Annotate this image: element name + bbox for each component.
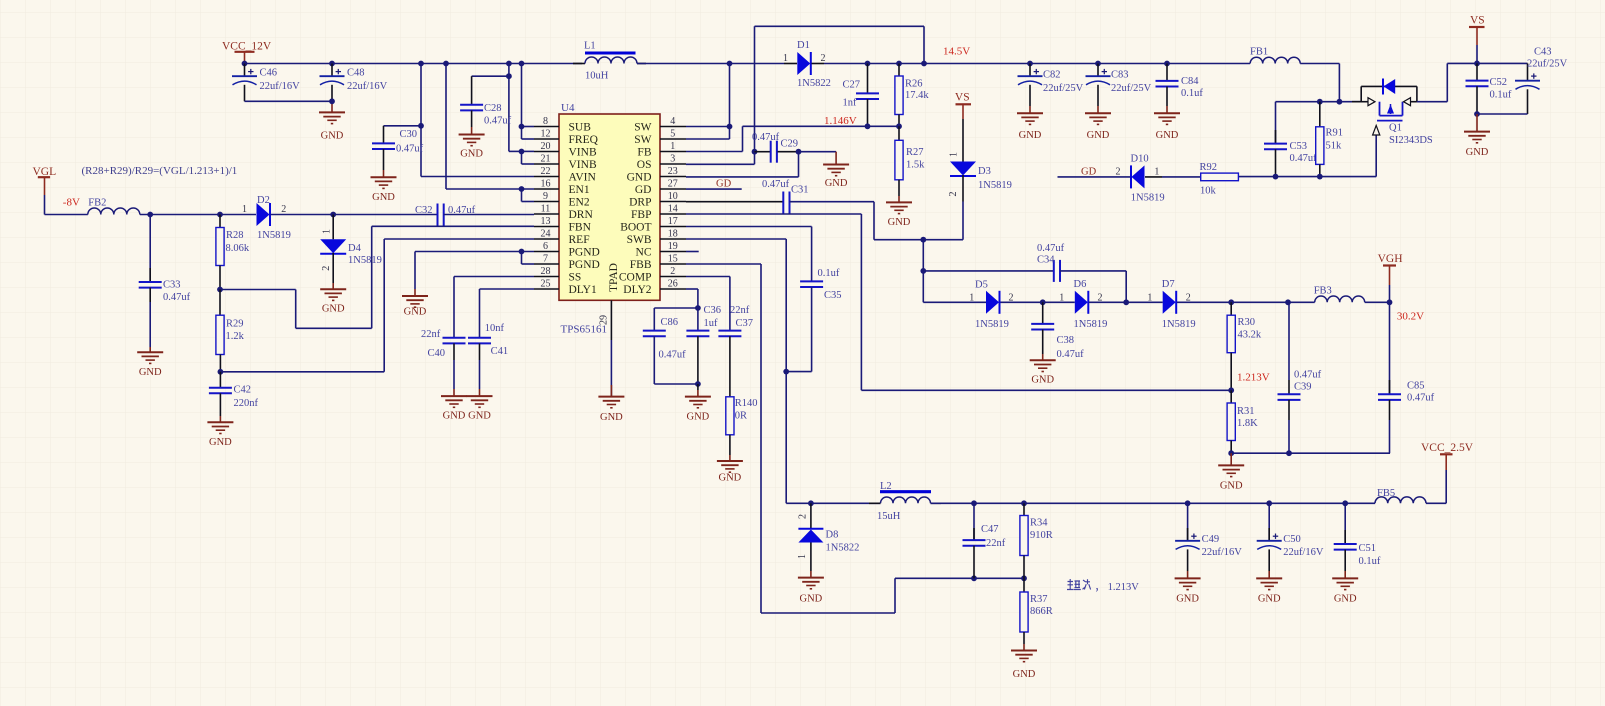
wire C43 top lead [1527, 63, 1529, 80]
wire R34 top lead [1023, 503, 1025, 515]
label C82 value [1043, 70, 1084, 95]
svg-text:GND: GND [1220, 481, 1243, 492]
label C85 value [1407, 381, 1435, 404]
svg-text:GND: GND [1087, 130, 1110, 141]
svg-text:6: 6 [543, 241, 548, 252]
resistor R26 [895, 76, 903, 115]
svg-text:C43: C43 [1534, 47, 1552, 58]
svg-text:FREQ: FREQ [569, 134, 599, 146]
svg-text:GND: GND [321, 131, 344, 142]
wire C36 gnd stem [697, 384, 699, 397]
svg-text:C84: C84 [1181, 76, 1199, 87]
svg-text:D1: D1 [797, 40, 810, 51]
capacitor C42 [209, 388, 232, 394]
svg-text:D2: D2 [257, 195, 270, 206]
wire DLY1 to C41 [480, 289, 535, 337]
svg-text:(R28+R29)/R29=(VGL/1.213+1)/1: (R28+R29)/R29=(VGL/1.213+1)/1 [82, 165, 238, 177]
svg-text:1.2k: 1.2k [226, 331, 245, 342]
svg-text:1N5819: 1N5819 [348, 255, 382, 266]
wire C36 bottom lead [697, 336, 699, 384]
wire C84 top lead [1166, 64, 1168, 81]
node 14.5V junctions [865, 61, 1170, 67]
label Q1 [1389, 123, 1433, 147]
wire SWB to L2 [786, 502, 880, 504]
wire C42 top lead [219, 372, 221, 388]
wire C28 top lead [471, 76, 473, 104]
wire 2.5V rail [931, 502, 1376, 504]
resistor R140 [726, 397, 734, 435]
svg-text:15uH: 15uH [877, 511, 901, 522]
svg-text:0.47uf: 0.47uf [163, 292, 191, 303]
junction REF/C42 node [218, 369, 224, 375]
junction VS node [1474, 61, 1480, 67]
svg-text:1: 1 [242, 204, 247, 215]
wire R27 bottom lead [898, 180, 900, 203]
ground C36/C86 [685, 397, 711, 423]
svg-text:25: 25 [541, 279, 551, 290]
svg-text:DLY2: DLY2 [623, 284, 651, 296]
junction VGH node [1387, 299, 1393, 305]
svg-text:24: 24 [541, 229, 551, 240]
svg-text:1N5819: 1N5819 [975, 319, 1009, 330]
svg-text:0.47uf: 0.47uf [1057, 349, 1085, 360]
wire EN1-EN2 tie [522, 189, 535, 202]
svg-text:L1: L1 [584, 41, 596, 52]
junction C39 bottom [1286, 450, 1292, 456]
wire L1 to D1 (SW node) [637, 63, 784, 65]
wire FBP pin14 [686, 214, 861, 390]
capacitor C85 [1378, 394, 1401, 400]
capacitor C30 [372, 143, 395, 149]
op-amp U4 TPS65161 body [559, 114, 660, 300]
svg-text:C50: C50 [1283, 534, 1301, 545]
label D4 [321, 229, 382, 271]
power flag VS (output) [1469, 15, 1485, 64]
junction VINB pin20 [519, 149, 525, 155]
svg-text:GD: GD [635, 184, 652, 196]
ground C30 [371, 177, 397, 203]
wire C49 bottom lead [1187, 549, 1189, 578]
svg-text:C52: C52 [1490, 77, 1508, 88]
wire C29 right lead [778, 151, 799, 153]
diode D5 [986, 291, 1000, 314]
ground C50 [1256, 578, 1282, 604]
junction SW tap [727, 61, 733, 67]
svg-text:26: 26 [668, 279, 678, 290]
wire R34 bottom lead [1023, 556, 1025, 579]
node 2.5V rail junctions [971, 500, 1348, 506]
wire gate rail [1238, 176, 1376, 178]
junction C47 bottom [971, 575, 977, 581]
IC U4 pin stubs [534, 127, 686, 290]
svg-text:2: 2 [948, 192, 959, 197]
junction D8 tap [808, 500, 814, 506]
label C50 value [1283, 534, 1324, 558]
svg-text:1N5819: 1N5819 [1162, 319, 1196, 330]
svg-text:C27: C27 [843, 80, 861, 91]
ferrite bead FB5 [1375, 497, 1426, 503]
capacitor C28 [460, 105, 483, 111]
label C28 value [484, 103, 512, 127]
wire VINB pins tie [522, 151, 535, 164]
wire D4 anode lead [332, 215, 334, 240]
wire VIN to SUB/FREQ [522, 64, 535, 140]
node VCC_12V junction dots [242, 61, 525, 67]
svg-text:FB3: FB3 [1314, 286, 1332, 297]
resistor R37 [1020, 592, 1028, 632]
svg-text:17.4k: 17.4k [905, 90, 929, 101]
svg-text:22uf/25V: 22uf/25V [1527, 59, 1568, 70]
svg-text:C29: C29 [781, 139, 799, 150]
junction 1.213V node [1228, 387, 1234, 393]
wire D8 anode lead [810, 543, 812, 578]
label C86 value [659, 317, 687, 361]
junction R30 top [1228, 299, 1234, 305]
wire C86 branch top [654, 308, 698, 330]
svg-text:22uf/25V: 22uf/25V [1111, 83, 1152, 94]
wire FB3 to VGH [1365, 301, 1390, 303]
junction EN1/EN2 [519, 186, 525, 192]
svg-text:C38: C38 [1057, 335, 1075, 346]
ground C29/GND pin [823, 165, 849, 190]
capacitor C52 [1466, 81, 1489, 87]
svg-text:SI2343DS: SI2343DS [1389, 135, 1433, 146]
label L2 [877, 481, 901, 522]
wire D1 cathode lead [812, 63, 825, 65]
svg-text:Q1: Q1 [1389, 123, 1402, 134]
junction C33 tap [147, 212, 153, 218]
wire D3 cathode lead [962, 175, 964, 240]
ground C33 [137, 352, 163, 378]
svg-text:0.1uf: 0.1uf [818, 268, 840, 279]
svg-text:2: 2 [321, 266, 332, 271]
power flag VS (D3) [955, 92, 971, 120]
svg-text:NC: NC [636, 247, 652, 259]
svg-text:SS: SS [569, 272, 582, 284]
svg-text:FB: FB [637, 147, 651, 159]
svg-text:20: 20 [541, 141, 551, 152]
svg-text:1: 1 [783, 53, 788, 64]
label D3 [948, 152, 1012, 197]
junction FBN node [217, 287, 223, 293]
svg-text:OS: OS [637, 159, 652, 171]
wire VGL to FB2 [45, 214, 88, 216]
svg-text:22: 22 [541, 166, 551, 177]
label D1 [783, 40, 831, 89]
wire COMP pin2 [686, 277, 730, 331]
wire C29 gnd stub [799, 152, 837, 165]
resistor R29 [216, 315, 224, 354]
diode D3 [950, 162, 976, 177]
junction R91 bottom [1317, 174, 1323, 180]
label C51 value [1359, 543, 1381, 567]
svg-text:FB1: FB1 [1250, 47, 1268, 58]
junction PGND pins [519, 249, 525, 255]
svg-text:GND: GND [372, 192, 395, 203]
label C40 value [421, 329, 445, 359]
svg-text:22nf: 22nf [421, 329, 441, 340]
wire R91 top lead [1319, 102, 1321, 127]
junction C53 bottom [1273, 174, 1279, 180]
svg-text:1: 1 [1154, 167, 1159, 178]
svg-text:43.2k: 43.2k [1238, 330, 1262, 341]
svg-text:22uf/16V: 22uf/16V [260, 81, 301, 92]
svg-text:R28: R28 [226, 230, 244, 241]
ground C40 [441, 396, 467, 422]
svg-text:R140: R140 [735, 398, 758, 409]
svg-text:C82: C82 [1043, 70, 1061, 81]
svg-text:C36: C36 [704, 305, 722, 316]
ground D8 [798, 578, 824, 605]
diode D1 [797, 52, 811, 75]
svg-text:3: 3 [670, 154, 675, 165]
ground R31 [1218, 465, 1244, 491]
wire C41 bottom lead [479, 343, 481, 396]
junction C39 top tap [1285, 299, 1291, 305]
svg-text:1N5819: 1N5819 [1131, 193, 1165, 204]
svg-text:R29: R29 [226, 319, 244, 330]
svg-text:GND: GND [139, 367, 162, 378]
IC U4 pin numbers [541, 116, 678, 290]
label C31 value [762, 179, 809, 196]
junction SUB pin [519, 124, 525, 130]
wire R37 bottom lead [1023, 632, 1025, 651]
svg-text:EN2: EN2 [569, 197, 590, 209]
svg-text:1.8K: 1.8K [1237, 418, 1258, 429]
svg-text:D3: D3 [978, 166, 991, 177]
wire VCC_12V rail [245, 63, 583, 65]
ground C51 [1332, 578, 1358, 604]
label C34 value [1037, 243, 1065, 266]
ferrite bead FB3 [1315, 296, 1365, 302]
svg-text:， 1.213V: ， 1.213V [1095, 582, 1140, 593]
svg-text:0.47uf: 0.47uf [1407, 393, 1435, 404]
wire C40 bottom lead [453, 343, 455, 396]
svg-text:C34: C34 [1037, 255, 1055, 266]
wire GD pin27 [686, 188, 742, 190]
wire C52 gnd stem [1476, 114, 1478, 132]
svg-text:2: 2 [1116, 167, 1121, 178]
wire DRP pin10 [686, 201, 783, 203]
svg-text:19: 19 [668, 241, 678, 252]
capacitor C49 [1175, 534, 1200, 550]
wire VIN to EN1 [446, 64, 534, 190]
wire gate riser [1375, 135, 1377, 177]
resistor R34 [1020, 516, 1028, 556]
wire VS to C43 [1477, 62, 1528, 64]
svg-text:GND: GND [1334, 593, 1357, 604]
label theory 1.213V [1067, 579, 1139, 593]
svg-text:GND: GND [1176, 593, 1199, 604]
ferrite bead FB1 [1250, 57, 1300, 63]
capacitor C31 [783, 192, 789, 214]
svg-text:GND: GND [1466, 147, 1489, 158]
wire C38 bottom lead [1042, 330, 1044, 361]
inductor L1 core bar [585, 52, 636, 55]
wire C82 top lead [1029, 64, 1031, 77]
svg-text:0.1uf: 0.1uf [1490, 90, 1512, 101]
capacitor C29 [771, 141, 777, 163]
capacitor C86 [643, 331, 666, 337]
ferrite bead FB2 [88, 208, 140, 215]
svg-text:10: 10 [668, 191, 678, 202]
wire R28 bottom lead [219, 266, 221, 290]
junction R34-R37 node [1021, 575, 1027, 581]
svg-text:0R: 0R [735, 411, 747, 422]
junction C36-C86 bottom [695, 381, 701, 387]
capacitor C43 [1515, 73, 1540, 89]
capacitor C36 [686, 331, 709, 337]
svg-text:22uf/16V: 22uf/16V [347, 81, 388, 92]
svg-text:10nf: 10nf [485, 323, 505, 334]
ground C82 [1017, 113, 1043, 141]
label R91 value [1326, 128, 1344, 152]
wire C86 bottom lead [654, 336, 698, 384]
label C37 value [730, 305, 753, 329]
svg-text:13: 13 [541, 216, 551, 227]
label R27 value [906, 147, 925, 171]
wire D7 to R30/FB3 [1177, 301, 1315, 303]
diode D7 [1163, 291, 1177, 314]
svg-text:R37: R37 [1030, 594, 1048, 605]
inductor L2 core bar [880, 490, 931, 493]
resistor R92 [1201, 173, 1239, 181]
ground PGND [402, 296, 428, 318]
wire C37 bottom lead [729, 336, 731, 397]
ground C84 [1154, 113, 1180, 141]
wire D8 cathode lead [810, 503, 812, 528]
capacitor C34 [1054, 260, 1060, 282]
wire pump node vertical [923, 240, 1054, 303]
svg-text:BOOT: BOOT [620, 222, 651, 234]
wire C49 top lead [1187, 503, 1189, 540]
wire C28 bottom lead [471, 110, 473, 134]
resistor R30 [1227, 315, 1235, 353]
junction C86 tap [695, 305, 701, 311]
label R37 value [1030, 594, 1053, 617]
svg-text:GND: GND [719, 472, 742, 483]
svg-text:866R: 866R [1030, 606, 1053, 617]
label D6 [1059, 279, 1107, 330]
svg-text:C42: C42 [234, 385, 252, 396]
svg-text:GND: GND [627, 172, 652, 184]
svg-text:DRN: DRN [569, 209, 594, 221]
wire FBP to divider [861, 389, 1231, 391]
junction C29-GND23 [796, 149, 802, 155]
power flag VCC_12V [222, 41, 272, 64]
label R34 value [1030, 518, 1053, 542]
svg-text:1uf: 1uf [704, 318, 719, 329]
wire BOOT pin17 [686, 227, 812, 282]
svg-text:DLY1: DLY1 [569, 284, 597, 296]
svg-text:2: 2 [798, 514, 809, 519]
wire L2 pin stubs [869, 502, 941, 504]
power flag VGH [1378, 253, 1403, 302]
power flag VGL [33, 166, 57, 215]
svg-text:1.213V: 1.213V [1237, 372, 1270, 384]
svg-text:C51: C51 [1359, 543, 1377, 554]
svg-text:2: 2 [821, 53, 826, 64]
svg-text:C39: C39 [1294, 382, 1312, 393]
svg-text:C37: C37 [736, 318, 754, 329]
wire VIN to C30/AVIN [384, 64, 535, 177]
svg-text:22uf/16V: 22uf/16V [1202, 547, 1243, 558]
svg-text:VS: VS [1470, 15, 1485, 27]
svg-text:29: 29 [599, 315, 610, 325]
capacitor C39 [1278, 394, 1301, 400]
svg-text:R30: R30 [1238, 317, 1256, 328]
wire C83 bottom lead [1097, 85, 1099, 113]
svg-text:17: 17 [668, 216, 678, 227]
wire C29 to pin23 [686, 152, 799, 177]
svg-text:22nf: 22nf [986, 538, 1006, 549]
wire R27 top lead [898, 126, 900, 140]
svg-text:15: 15 [668, 254, 678, 265]
wire FBB pin15 [686, 264, 1024, 613]
svg-text:22uf/16V: 22uf/16V [1283, 547, 1324, 558]
wire C50 bottom lead [1268, 549, 1270, 578]
svg-text:C49: C49 [1202, 534, 1220, 545]
svg-text:1.146V: 1.146V [824, 115, 857, 127]
svg-text:D5: D5 [975, 280, 988, 291]
wire R30 top lead [1230, 302, 1232, 315]
wire R26 top lead [898, 64, 900, 77]
inductor L1 coil [585, 57, 637, 64]
svg-text:FB5: FB5 [1377, 488, 1395, 499]
wire GD net [1058, 176, 1132, 178]
svg-text:1N5822: 1N5822 [826, 543, 860, 554]
svg-text:VINB: VINB [569, 147, 597, 159]
svg-text:5: 5 [670, 129, 675, 140]
wire R91 bottom lead [1319, 164, 1321, 176]
svg-text:51k: 51k [1326, 141, 1343, 152]
ground R27 [886, 202, 912, 227]
junction C28 tap [506, 73, 512, 79]
wire C47 top lead [973, 503, 975, 539]
svg-text:0.47uf: 0.47uf [762, 179, 790, 190]
svg-text:FBB: FBB [630, 259, 652, 271]
svg-text:1: 1 [797, 554, 808, 559]
svg-text:C28: C28 [484, 103, 502, 114]
svg-text:R92: R92 [1200, 162, 1218, 173]
capacitor C84 [1156, 81, 1179, 87]
diode D2 [257, 203, 271, 226]
svg-text:0.47uf: 0.47uf [1290, 153, 1318, 164]
junction C46-C48 gnd [329, 98, 335, 104]
label D2 [242, 195, 291, 241]
capacitor C83 [1086, 69, 1111, 85]
label C33 value [163, 280, 191, 304]
svg-text:8: 8 [543, 116, 548, 127]
ground C41 [467, 396, 493, 422]
wire R31 top lead [1230, 390, 1232, 403]
svg-text:PGND: PGND [569, 247, 600, 259]
wire R37 top lead [1023, 578, 1025, 592]
svg-text:30.2V: 30.2V [1397, 311, 1424, 323]
svg-text:2: 2 [281, 204, 286, 215]
ground R140 [717, 461, 743, 483]
svg-text:GND: GND [468, 411, 491, 422]
svg-text:1N5819: 1N5819 [257, 230, 291, 241]
label R28 value [226, 230, 250, 254]
resistor R27 [895, 140, 903, 180]
svg-text:C48: C48 [347, 68, 365, 79]
label C39 value [1294, 370, 1322, 393]
wire C33 top lead [149, 215, 151, 282]
svg-text:0.47uf: 0.47uf [396, 144, 424, 155]
svg-text:1.5k: 1.5k [906, 160, 925, 171]
wire NC stub [686, 251, 699, 253]
